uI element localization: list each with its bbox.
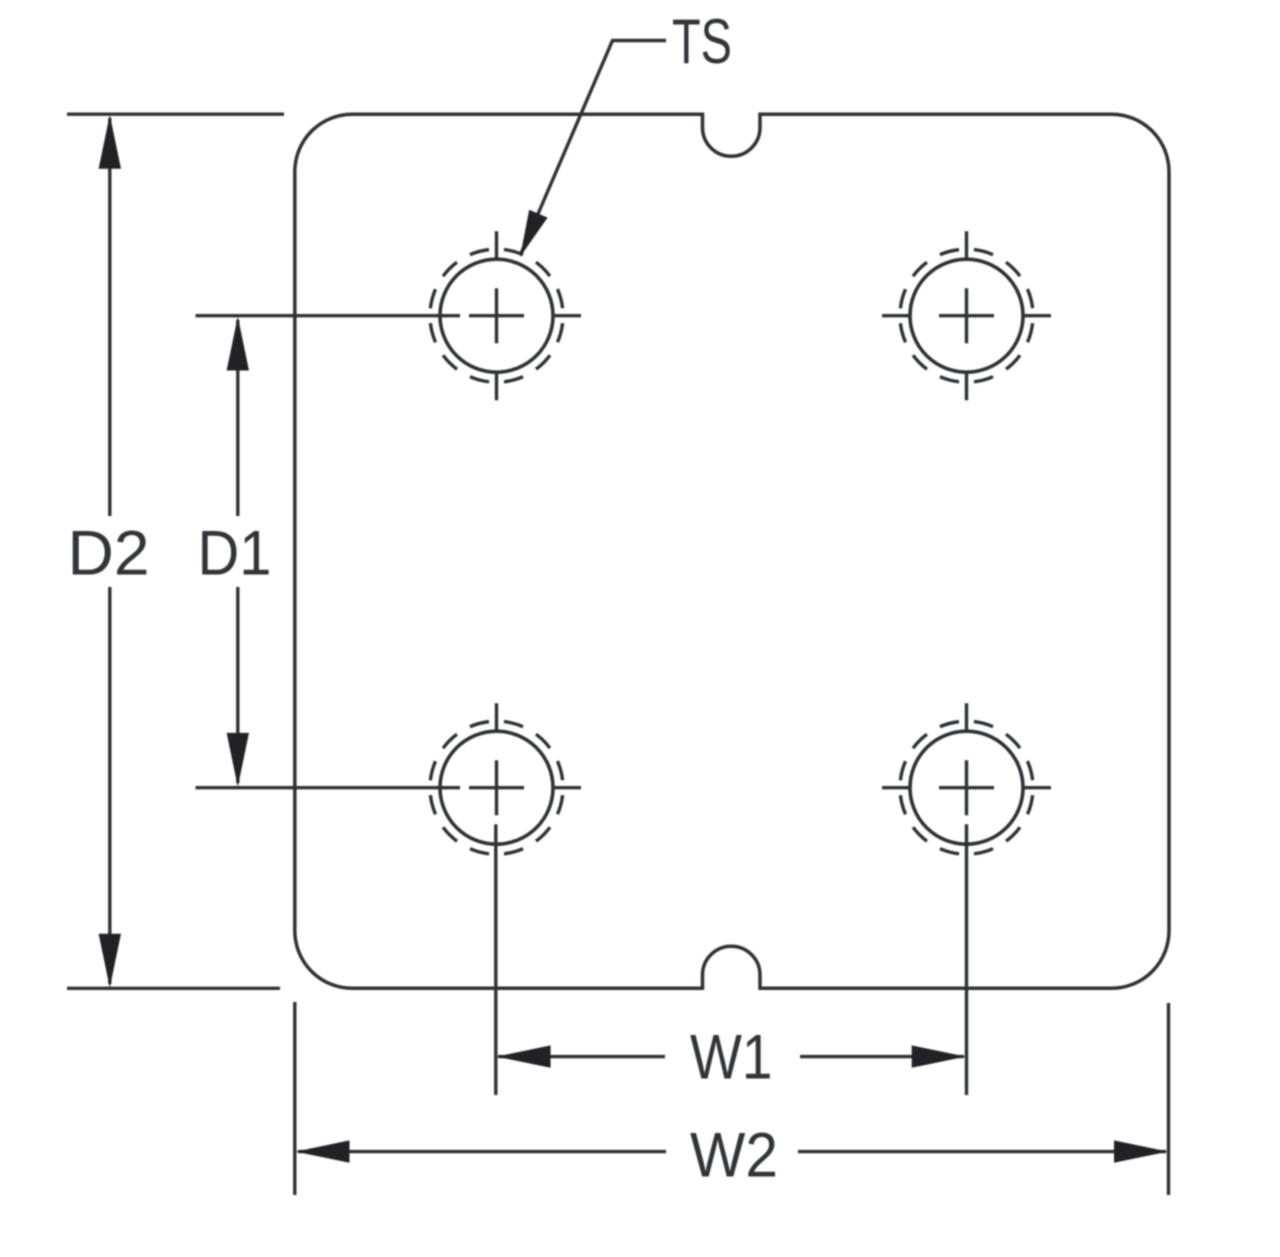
svg-text:D1: D1 (198, 519, 272, 589)
svg-text:W1: W1 (690, 1022, 773, 1092)
D1 extension line bottom (through bottom-left hole) (196, 786, 461, 789)
W2 extension line right (1167, 1003, 1170, 1195)
W1 dimension line (498, 1055, 964, 1058)
hole bottom-right: dashed circle (900, 721, 1033, 854)
W2 arrow right (1114, 1140, 1168, 1162)
W1 extension line right (below bottom-right hole) (965, 824, 968, 1095)
W2 arrow left (296, 1140, 350, 1162)
W1 extension line left (below bottom-left hole) (494, 824, 497, 1095)
svg-text:D2: D2 (68, 519, 150, 589)
hole bottom-left: solid circle (440, 731, 553, 844)
hole bottom-right: ticks (top, left, right) (882, 703, 1051, 788)
hole top-right: dashed circle (900, 249, 1033, 382)
svg-text:W2: W2 (690, 1120, 778, 1190)
TS leader line (521, 41, 666, 254)
svg-text:TS: TS (672, 7, 732, 77)
D2 extension line bottom (67, 987, 280, 990)
W1 arrow left (497, 1045, 551, 1067)
D2 arrow up (99, 115, 121, 169)
hole top-left: center cross (469, 288, 524, 343)
D1 arrow down (227, 733, 249, 787)
hole top-left: solid circle (440, 259, 553, 372)
D2 extension line top (67, 112, 284, 115)
hole top-right: solid circle (910, 259, 1023, 372)
D1 extension line top (through top-left hole) (196, 314, 461, 317)
plate outline with top and bottom notches (295, 114, 1169, 988)
W1 arrow right (912, 1045, 966, 1067)
D1 arrow up (227, 317, 249, 371)
hole bottom-right: center cross (939, 760, 994, 815)
D2 dimension line (108, 118, 111, 984)
hole top-left: dashed circle (430, 249, 563, 382)
TS leader arrowhead (520, 210, 548, 257)
hole top-right: ticks (top, bottom, left, right) (882, 231, 1051, 400)
D1 dimension line (236, 320, 239, 783)
hole bottom-left: ticks (top, right) (497, 703, 582, 788)
D2 arrow down (99, 934, 121, 988)
hole top-right: center cross (939, 288, 994, 343)
hole bottom-right: solid circle (910, 731, 1023, 844)
hole top-left: ticks (top, bottom, right) (497, 231, 582, 400)
hole bottom-left: center cross (469, 760, 524, 815)
hole bottom-left: dashed circle (430, 721, 563, 854)
W2 extension line left (293, 1002, 296, 1195)
W2 dimension line (298, 1150, 1166, 1153)
